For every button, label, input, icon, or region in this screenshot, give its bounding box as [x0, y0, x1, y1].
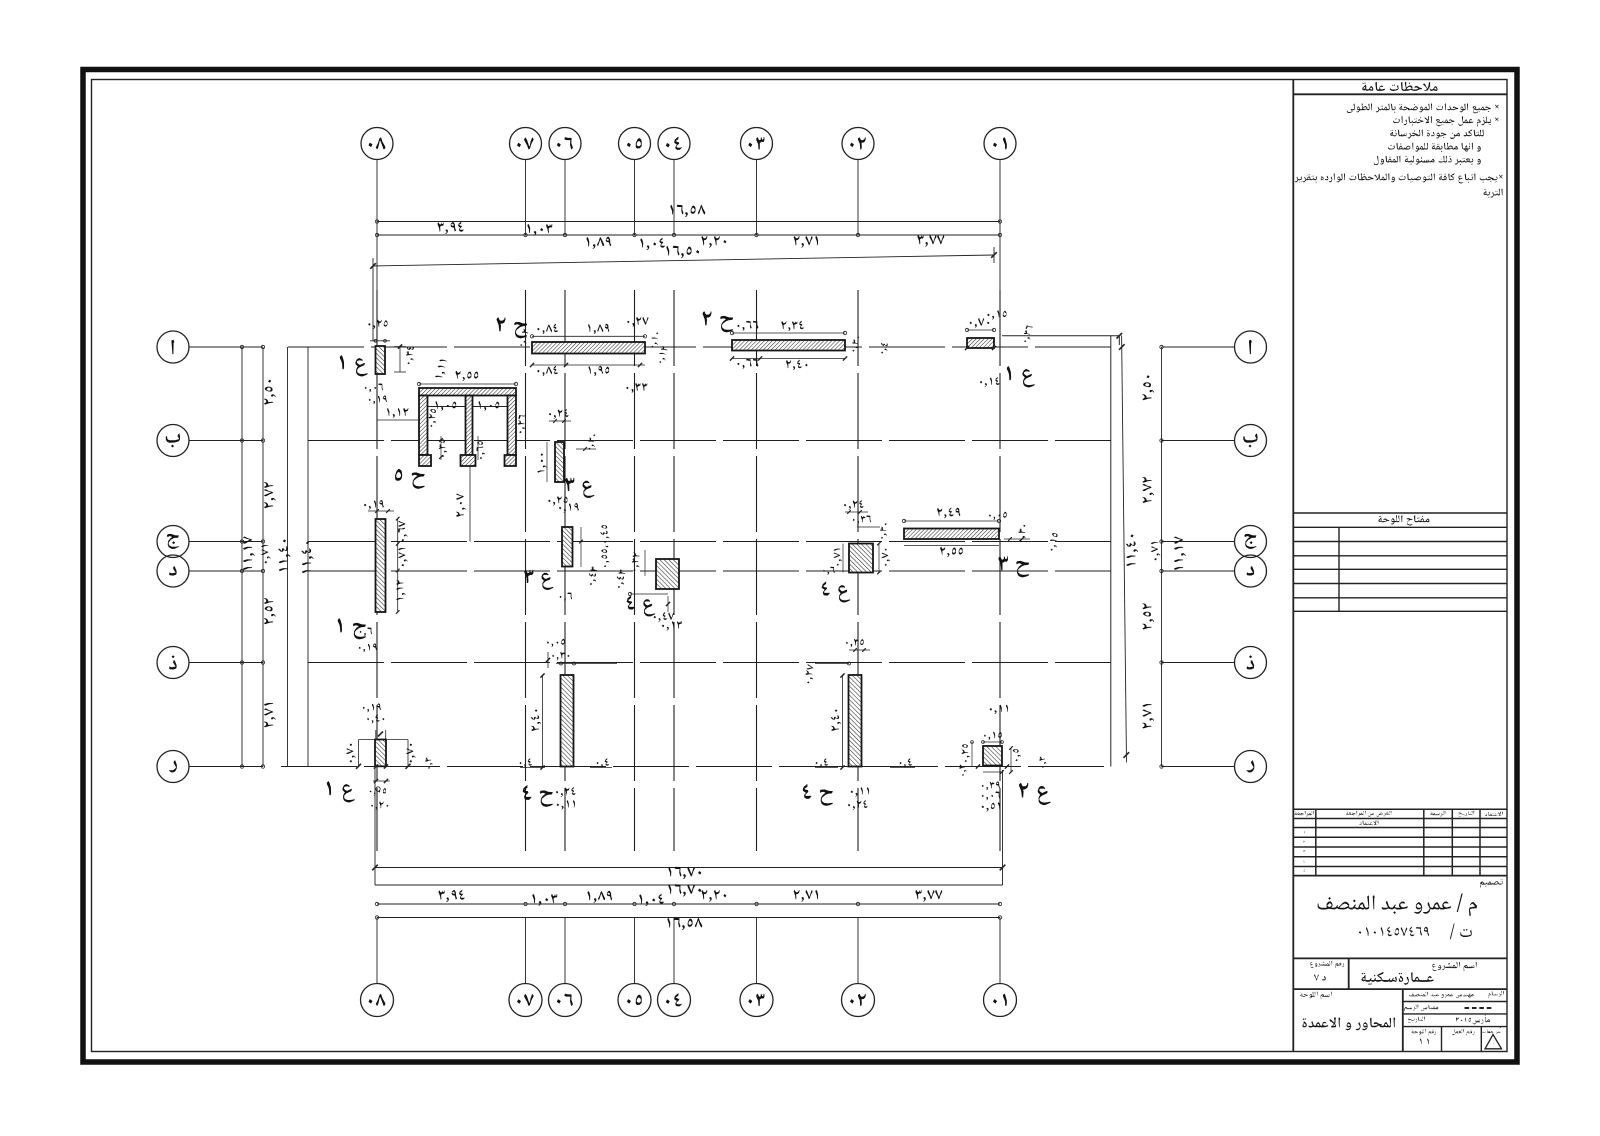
revision row number 5 [1304, 870, 1306, 873]
grid bubble axis 3 bottom [740, 984, 773, 1017]
bottom chain line with ticks [377, 903, 1000, 905]
vertical dim 2.07 below H5 [469, 466, 471, 542]
note line 5 [1374, 156, 1481, 166]
axis 8 centerline [376, 290, 378, 851]
row ب centerline [308, 440, 1111, 442]
row ا right leader [1162, 346, 1235, 348]
axis 1 top stem [999, 160, 1001, 236]
top chain value 3.77 [918, 235, 945, 247]
row bubble ج left [157, 526, 189, 558]
bottom cells dividers [1441, 1027, 1443, 1052]
notes header rule [1293, 93, 1507, 95]
bottom chain values [439, 890, 466, 903]
scale label [1405, 1005, 1439, 1012]
note line 7 [1484, 189, 1503, 198]
axis 2 centerline [857, 290, 859, 851]
column A3 (3ayn 3) upper [555, 442, 564, 482]
row bubble ب right [1235, 425, 1267, 457]
top chain value 1.89 [587, 237, 612, 249]
revision row number 0 [1303, 822, 1306, 825]
row ر left leader [189, 766, 263, 768]
revision header: approval [1485, 812, 1503, 816]
top chain value 2.20 [701, 236, 726, 248]
scale dashes [1465, 1007, 1470, 1009]
revision row 0: approval entry [1359, 820, 1378, 825]
sheet number label [1412, 1029, 1437, 1035]
top chain value 1.04 [640, 238, 665, 251]
bottom overall dimension 16.70 line [375, 867, 1003, 869]
left chain line 1 [241, 347, 243, 767]
note line 3 [1390, 130, 1484, 140]
sheet name cell divider [1402, 989, 1404, 1051]
axis 1 centerline [999, 290, 1001, 851]
draftsman row rules [1403, 1001, 1507, 1003]
project row rule [1293, 957, 1507, 959]
axis 7 bottom stem [525, 918, 527, 984]
row ذ centerline [308, 662, 1111, 664]
row bubble ذ right [1235, 647, 1267, 679]
column H2 (7a 2) top-right [732, 340, 845, 351]
project number label [1310, 961, 1344, 968]
row bubble ذ left [157, 647, 189, 679]
key table column divider [1338, 527, 1340, 611]
grid bubble axis 4 top [658, 128, 690, 160]
column A1 (3ayn 1) top-left [376, 346, 386, 374]
row ا left leader [189, 346, 263, 348]
row ج left leader [189, 541, 263, 543]
revision row number 1 [1303, 831, 1306, 834]
grid bubble axis 2 bottom [842, 984, 875, 1017]
note line 1 [1347, 103, 1499, 113]
axis 6 top stem [564, 160, 566, 236]
axis 3 centerline [756, 290, 758, 851]
axis 2 bottom stem [857, 918, 859, 984]
top chain value 2.71 [794, 236, 819, 248]
column H4 (7a 4) bottom-middle [561, 675, 574, 767]
row ر centerline [281, 766, 1111, 768]
phone label [1450, 924, 1472, 940]
row د right leader [1162, 570, 1235, 572]
top dimension chain line [377, 234, 1000, 236]
axis 3 top stem [756, 160, 758, 236]
plan top-right edge [1002, 335, 1119, 337]
grid bubble axis 1 bottom [984, 984, 1017, 1017]
revision header: purpose of revision [1346, 811, 1391, 817]
column A4 (3ayn 4) middle [656, 559, 679, 589]
row bubble د left [157, 555, 189, 587]
row bubble ج right [1235, 526, 1267, 558]
column A4 (3ayn 4) right [849, 544, 873, 573]
grid bubble axis 8 bottom [361, 984, 394, 1017]
H5 opening inner ledge lines [428, 406, 466, 408]
column H3 (7a 3) right [904, 529, 999, 540]
inner thin sheet border [92, 80, 1508, 1052]
project number cell divider [1348, 958, 1350, 989]
axis 8 bottom stem [376, 918, 378, 984]
sheet name label [1300, 992, 1332, 1000]
row bubble ا right [1235, 331, 1267, 363]
designer label [1480, 879, 1503, 887]
sheet number value [1420, 1039, 1429, 1045]
axis 8 top stem [376, 160, 378, 236]
revision triangle symbol [1485, 1035, 1502, 1049]
column H5 (7a 5) U-shaped [419, 388, 516, 396]
axis 4 centerline [673, 290, 675, 851]
grid bubble axis 5 bottom [618, 984, 651, 1017]
left chain line 2 with values [262, 347, 264, 767]
revision row number 2 [1304, 841, 1306, 844]
column H4 (7a 4) bottom-right [849, 675, 862, 767]
draftsman name [1409, 992, 1474, 998]
grid bubble axis 4 bottom [658, 984, 691, 1017]
axis 5 centerline [634, 290, 636, 851]
column A2 (3ayn 2) bottom-right [983, 746, 1002, 766]
axis 7 top stem [525, 160, 527, 236]
row ا centerline [288, 346, 1111, 348]
top dimension line total 16.58 [377, 221, 1000, 223]
grid bubble axis 5 top [619, 128, 651, 160]
row ذ right leader [1162, 662, 1235, 664]
axis 4 top stem [673, 160, 675, 236]
column H1 (7a 1) left [376, 519, 386, 612]
left overall 11.40 dimension line [287, 347, 289, 767]
row د left leader [189, 570, 263, 572]
column A3 (3ayn 3) lower [562, 527, 573, 567]
row ج right leader [1162, 541, 1235, 543]
grid bubble axis 7 top [510, 128, 542, 160]
axis 6 bottom stem [564, 918, 566, 984]
revision row number 3 [1303, 850, 1305, 853]
grid bubble axis 8 top [361, 128, 393, 160]
phone number [1359, 927, 1429, 937]
grid bubble axis 7 bottom [509, 984, 542, 1017]
bottom dimension line total 16.58 [377, 917, 1000, 919]
work number label [1452, 1029, 1474, 1035]
project name value: residential building [1361, 972, 1433, 985]
left plan edge line [307, 347, 309, 767]
grid bubble axis 6 top [549, 128, 581, 160]
project number value [1314, 974, 1326, 980]
row bubble ب left [157, 425, 189, 457]
row ب left leader [189, 440, 263, 442]
column H2 (7a 2) top-middle [532, 342, 645, 354]
row ب right leader [1162, 440, 1235, 442]
row bubble ر right [1235, 751, 1267, 783]
row ر right leader [1162, 766, 1235, 768]
top chain value 3.94 [438, 222, 465, 235]
date label [1408, 1017, 1425, 1024]
grid bubble axis 6 bottom [549, 984, 582, 1017]
plan right edge [1110, 336, 1112, 767]
axis 4 bottom stem [673, 918, 675, 984]
right chain line with values [1161, 347, 1163, 767]
project name label [1432, 962, 1477, 971]
revision header: almuraja3a [1295, 811, 1315, 817]
date value: march 2015 [1456, 1014, 1490, 1024]
note line 2 [1393, 116, 1499, 127]
sheet name row rule [1293, 988, 1507, 990]
outer thick sheet border [83, 70, 1517, 1063]
top chain value 1.03 [527, 224, 552, 236]
bottom dimension line 2 [375, 884, 1003, 886]
key table: sheet key [1293, 512, 1507, 514]
axis 3 bottom stem [756, 918, 758, 984]
row د centerline [308, 570, 1111, 572]
grid bubble axis 3 top [741, 128, 773, 160]
note line 4 [1388, 143, 1481, 153]
row bubble ا left [157, 331, 189, 363]
revision header: date [1459, 811, 1475, 817]
notes title: general notes [1362, 82, 1438, 91]
row bubble د right [1235, 555, 1267, 587]
right overall 11.40 sloped dimension line [1122, 336, 1127, 763]
right panel separator line [1292, 80, 1294, 1052]
axis 7 centerline [525, 290, 527, 851]
note line 6 [1295, 173, 1503, 183]
column A1 (3ayn 1) bottom-left [375, 740, 386, 767]
sheet name value: axes and columns [1303, 1017, 1396, 1030]
revision header: drawing [1430, 811, 1445, 817]
row ذ left leader [189, 662, 263, 664]
designer name [1318, 894, 1478, 917]
grid bubble axis 1 top [984, 128, 1016, 160]
column A1 (3ayn 1) top-right [967, 338, 994, 348]
title block top rule [1293, 875, 1507, 877]
axis 2 top stem [857, 160, 859, 236]
revision table [1293, 808, 1507, 810]
axis 1 bottom stem [999, 918, 1001, 984]
axis 6 centerline [564, 290, 566, 851]
revisions cell label [1483, 1030, 1503, 1035]
top overall dimension 16.50 sloped line [373, 255, 994, 266]
grid bubble axis 2 top [842, 128, 874, 160]
axis 5 top stem [634, 160, 636, 236]
revision row number 4 [1304, 860, 1306, 863]
draftsman label [1488, 991, 1504, 998]
row ج centerline [308, 541, 1111, 543]
row bubble ر left [157, 751, 189, 783]
axis 5 bottom stem [634, 918, 636, 984]
